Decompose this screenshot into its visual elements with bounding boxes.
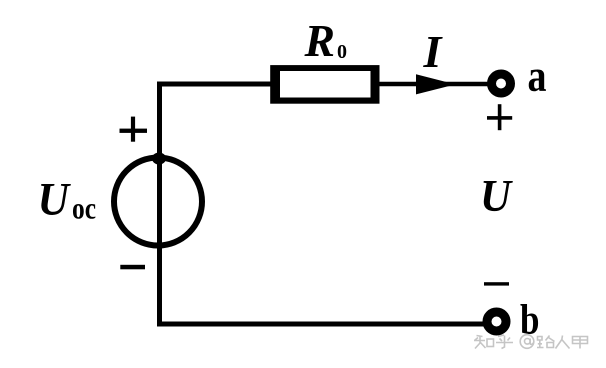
svg-text:oc: oc: [72, 191, 96, 226]
wire resistor right to terminal a: [377, 82, 491, 87]
svg-text:a: a: [528, 50, 547, 101]
wire main loop: top-left corner, left vertical, bottom run to terminal b: [160, 84, 489, 324]
watermark: 知乎 @路人甲 (hand-drawn, Liberation has no CJK): [474, 335, 588, 349]
terminal a (open circle): [492, 74, 511, 93]
watermark char 路: [537, 336, 555, 348]
watermark char 甲: [573, 337, 588, 349]
watermark char 人: [556, 336, 570, 349]
resistor R0 body: [270, 65, 379, 104]
plus sign at source top: [120, 129, 148, 133]
plus sign at terminal a: [487, 116, 512, 120]
minus sign at terminal b: [484, 282, 509, 285]
junction dot at top of source circle: [152, 153, 166, 165]
svg-text:I: I: [423, 26, 444, 77]
svg-text:U: U: [480, 170, 513, 221]
terminal b (open circle): [487, 312, 506, 331]
watermark char 知: [474, 336, 494, 349]
svg-text:0: 0: [337, 41, 347, 63]
current arrow: [416, 74, 456, 94]
voltage source U_oc (circle, wire passes through): [114, 158, 202, 246]
svg-text:R: R: [304, 15, 335, 66]
watermark char @: [520, 335, 534, 349]
svg-text:U: U: [38, 174, 71, 226]
watermark char 乎: [496, 335, 513, 349]
minus sign at source bottom: [120, 265, 145, 270]
